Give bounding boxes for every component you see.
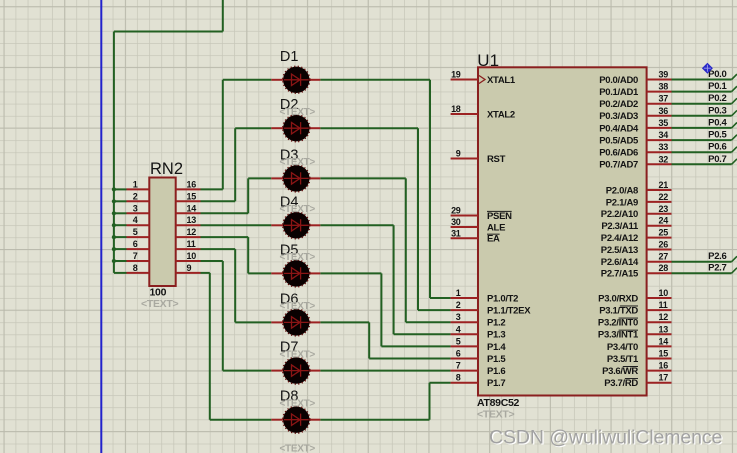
junction at RN2 pin 3 bus: [112, 211, 116, 215]
wire D8 to U1 P1.7: [320, 419, 429, 421]
svg-text:3: 3: [133, 203, 138, 213]
svg-text:2: 2: [133, 191, 138, 201]
origin marker diamond: [702, 63, 713, 74]
svg-text:100: 100: [150, 287, 167, 299]
svg-text:1: 1: [456, 288, 461, 298]
pin 9 U1 left: [451, 158, 478, 160]
pin 37 U1 right: [647, 103, 672, 105]
svg-text:P0.7/AD7: P0.7/AD7: [599, 160, 638, 171]
wire RN2 pin14 to D3: [201, 212, 249, 214]
svg-text:25: 25: [659, 228, 669, 238]
svg-text:27: 27: [659, 252, 669, 262]
svg-text:P0.3/AD3: P0.3/AD3: [599, 111, 638, 122]
svg-text:33: 33: [659, 142, 669, 152]
wire top vertical to image edge: [222, 0, 224, 32]
wire U1 P0.5 net: [672, 139, 732, 141]
wire D1 to U1 P1.0: [320, 79, 430, 81]
svg-text:P0.6/AD6: P0.6/AD6: [599, 148, 638, 159]
pin 36 U1 right: [647, 115, 672, 117]
svg-text:P2.7: P2.7: [708, 263, 726, 274]
svg-text:8: 8: [133, 263, 138, 273]
svg-text:<TEXT>: <TEXT>: [280, 204, 316, 215]
svg-text:2: 2: [456, 300, 461, 310]
svg-text:16: 16: [659, 361, 669, 371]
svg-text:34: 34: [659, 130, 669, 140]
wire D3 to U1 P1.2: [320, 177, 406, 179]
pin 1 U1 left: [451, 297, 478, 299]
pin 38 U1 right: [647, 91, 672, 93]
pin 5 RN2 left: [127, 236, 150, 238]
pin 16 RN2 right: [176, 188, 201, 190]
wire U1 P0.0 net: [672, 79, 732, 81]
svg-text:P1.6: P1.6: [487, 366, 505, 377]
pin 21 U1 right: [647, 189, 672, 191]
pin 23 U1 right: [647, 213, 672, 215]
svg-text:8: 8: [456, 373, 461, 383]
wire RN2 pin13 to D4: [201, 224, 272, 226]
wire U1 P0.7 net: [672, 163, 732, 165]
svg-text:39: 39: [659, 70, 669, 80]
svg-text:<TEXT>: <TEXT>: [280, 107, 316, 118]
LED D6: [271, 309, 320, 336]
pin 6 U1 left: [451, 358, 478, 360]
svg-text:9: 9: [187, 263, 192, 273]
svg-text:P0.2/AD2: P0.2/AD2: [599, 99, 638, 110]
wire RN2 pin11 to D6: [201, 248, 236, 250]
svg-text:P1.1/T2EX: P1.1/T2EX: [487, 306, 531, 317]
svg-text:38: 38: [659, 82, 669, 92]
svg-text:P3.5/T1: P3.5/T1: [607, 354, 639, 365]
svg-text:P2.0/A8: P2.0/A8: [606, 185, 638, 196]
svg-text:P1.7: P1.7: [487, 378, 505, 389]
wire RN2 pin10 to D7: [201, 260, 223, 262]
svg-text:P0.6: P0.6: [708, 142, 726, 153]
svg-text:7: 7: [456, 361, 461, 371]
net label tail P2.7: [732, 268, 737, 273]
svg-text:10: 10: [659, 288, 669, 298]
svg-text:32: 32: [659, 154, 669, 164]
wire U1 P0.3 net: [672, 115, 732, 117]
junction at RN2 pin 4 bus: [112, 223, 116, 227]
svg-text:26: 26: [659, 240, 669, 250]
svg-text:12: 12: [659, 312, 669, 322]
svg-text:17: 17: [659, 373, 669, 383]
pin 12 U1 right: [647, 321, 672, 323]
net label tail P0.3: [732, 110, 737, 115]
net label tail P2.6: [732, 256, 737, 261]
net label tail P0.1: [732, 86, 737, 91]
svg-text:P0.2: P0.2: [708, 93, 726, 104]
svg-text:12: 12: [187, 227, 197, 237]
svg-text:4: 4: [456, 324, 461, 334]
svg-text:36: 36: [659, 106, 669, 116]
svg-text:P0.0: P0.0: [708, 69, 726, 80]
clock input marker XTAL1: [479, 76, 485, 84]
svg-text:P3.4/T0: P3.4/T0: [607, 342, 638, 353]
wire RN2 pin9 to D8: [201, 272, 210, 274]
svg-text:9: 9: [456, 149, 461, 159]
svg-text:<TEXT>: <TEXT>: [280, 252, 316, 263]
pin 39 U1 right: [647, 79, 672, 81]
svg-text:P3.3/INT1: P3.3/INT1: [598, 330, 639, 341]
svg-text:D1: D1: [280, 49, 299, 65]
LED D5: [271, 260, 320, 287]
svg-text:<TEXT>: <TEXT>: [280, 444, 316, 453]
pin 30 U1 left: [451, 226, 478, 228]
svg-text:5: 5: [456, 336, 461, 346]
wire to RN2 pin 5: [114, 236, 127, 238]
svg-text:P1.3: P1.3: [487, 330, 505, 341]
svg-text:P2.2/A10: P2.2/A10: [601, 209, 638, 220]
svg-text:18: 18: [451, 104, 461, 114]
svg-text:5: 5: [133, 227, 138, 237]
net label tail P0.4: [732, 123, 737, 128]
svg-text:RST: RST: [487, 154, 506, 165]
pin 28 U1 right: [647, 272, 672, 274]
pin 7 RN2 left: [127, 260, 150, 262]
pin 10 RN2 right: [176, 260, 201, 262]
svg-text:7: 7: [133, 251, 138, 261]
svg-text:31: 31: [451, 228, 461, 238]
svg-text:<TEXT>: <TEXT>: [477, 409, 514, 421]
LED D3: [271, 165, 320, 192]
pin 26 U1 right: [647, 249, 672, 251]
wire U1 P0.1 net: [672, 91, 732, 93]
wire RN2 pin15 to D2: [201, 200, 236, 202]
svg-text:P0.7: P0.7: [708, 154, 726, 165]
resistor network RN2 body: [149, 178, 175, 287]
svg-text:P3.2/INT0: P3.2/INT0: [598, 318, 638, 329]
net label tail P0.6: [732, 147, 737, 152]
pin 13 U1 right: [647, 333, 672, 335]
junction at RN2 pin 6 bus: [112, 247, 116, 251]
pin 33 U1 right: [647, 151, 672, 153]
svg-text:P0.5: P0.5: [708, 130, 727, 141]
pin 15 RN2 right: [176, 200, 201, 202]
wire U1 P0.2 net: [672, 103, 732, 105]
pin 31 U1 left: [451, 237, 478, 239]
svg-text:15: 15: [659, 349, 669, 359]
net label tail P0.7: [732, 159, 737, 164]
svg-text:21: 21: [659, 180, 669, 190]
svg-text:19: 19: [451, 70, 461, 80]
net label tail P0.0: [732, 74, 737, 79]
svg-text:P2.1/A9: P2.1/A9: [606, 197, 638, 208]
wire U1 P0.4 net: [672, 127, 732, 129]
pin 12 RN2 right: [176, 236, 201, 238]
pin 24 U1 right: [647, 225, 672, 227]
svg-text:6: 6: [133, 239, 138, 249]
LED D2: [271, 115, 320, 142]
svg-text:P2.5/A13: P2.5/A13: [601, 245, 638, 256]
wire to RN2 pin 3: [114, 212, 127, 214]
svg-text:P1.4: P1.4: [487, 342, 506, 353]
svg-text:AT89C52: AT89C52: [477, 397, 520, 409]
svg-text:PSEN: PSEN: [487, 211, 512, 222]
svg-text:35: 35: [659, 118, 669, 128]
svg-text:XTAL2: XTAL2: [487, 109, 515, 120]
svg-text:P0.1/AD1: P0.1/AD1: [599, 87, 639, 98]
svg-text:3: 3: [456, 312, 461, 322]
svg-text:37: 37: [659, 94, 669, 104]
svg-text:<TEXT>: <TEXT>: [280, 398, 316, 409]
svg-text:15: 15: [187, 191, 197, 201]
pin 11 U1 right: [647, 309, 672, 311]
svg-text:11: 11: [187, 239, 196, 249]
net label tail P0.5: [732, 135, 737, 140]
svg-text:P2.3/A11: P2.3/A11: [601, 221, 639, 232]
svg-text:P0.0/AD0: P0.0/AD0: [599, 75, 638, 86]
pin 5 U1 left: [451, 345, 478, 347]
svg-text:P3.1/TXD: P3.1/TXD: [599, 306, 638, 317]
svg-text:<TEXT>: <TEXT>: [280, 157, 316, 168]
svg-text:13: 13: [187, 215, 197, 225]
LED D7: [271, 357, 320, 384]
svg-text:P0.1: P0.1: [708, 81, 727, 92]
junction at RN2 pin 1 bus: [112, 187, 116, 191]
wire U1 P2.7 net: [672, 272, 732, 274]
wire to RN2 pin 4: [114, 224, 127, 226]
svg-text:6: 6: [456, 349, 461, 359]
LED D8: [271, 406, 320, 433]
svg-text:13: 13: [659, 324, 669, 334]
pin 2 U1 left: [451, 309, 478, 311]
svg-text:11: 11: [659, 300, 668, 310]
junction at RN2 pin 7 bus: [112, 259, 116, 263]
pin 32 U1 right: [647, 163, 672, 165]
wire RN2 pin12 to D5: [201, 236, 249, 238]
wire RN2 pin16 to D1: [201, 188, 223, 190]
svg-text:30: 30: [451, 217, 461, 227]
pin 8 RN2 left: [127, 272, 150, 274]
pin 13 RN2 right: [176, 224, 201, 226]
wire D5 to U1 P1.4: [320, 272, 381, 274]
pin 4 RN2 left: [127, 224, 150, 226]
net label tail P0.2: [732, 98, 737, 103]
pin 35 U1 right: [647, 127, 672, 129]
pin 3 RN2 left: [127, 212, 150, 214]
svg-text:14: 14: [187, 203, 197, 213]
pin 15 U1 right: [647, 358, 672, 360]
wire to RN2 pin 2: [114, 200, 127, 202]
svg-text:XTAL1: XTAL1: [487, 75, 516, 86]
svg-text:P2.6: P2.6: [708, 251, 726, 262]
pin 7 U1 left: [451, 370, 478, 372]
pin 11 RN2 right: [176, 248, 201, 250]
wire D4 to U1 P1.3: [320, 224, 393, 226]
svg-text:P1.2: P1.2: [487, 318, 505, 329]
pin 6 RN2 left: [127, 248, 150, 250]
pin 9 RN2 right: [176, 272, 201, 274]
pin 22 U1 right: [647, 201, 672, 203]
wire top horizontal: [114, 31, 223, 33]
pin 27 U1 right: [647, 261, 672, 263]
svg-text:22: 22: [659, 192, 669, 202]
pin 18 U1 left: [451, 113, 478, 115]
pin 29 U1 left: [451, 215, 478, 217]
pin 8 U1 left: [451, 382, 478, 384]
svg-text:P2.7/A15: P2.7/A15: [601, 269, 639, 280]
svg-text:P1.5: P1.5: [487, 354, 506, 365]
svg-text:<TEXT>: <TEXT>: [280, 349, 316, 360]
pin 34 U1 right: [647, 139, 672, 141]
svg-text:16: 16: [187, 179, 197, 189]
wire to RN2 pin 6: [114, 248, 127, 250]
pin 14 U1 right: [647, 345, 672, 347]
pin 17 U1 right: [647, 382, 672, 384]
svg-text:P2.4/A12: P2.4/A12: [601, 233, 638, 244]
svg-text:<TEXT>: <TEXT>: [280, 301, 316, 312]
pin 4 U1 left: [451, 333, 478, 335]
pin 14 RN2 right: [176, 212, 201, 214]
pin 1 RN2 left: [127, 188, 150, 190]
svg-text:28: 28: [659, 263, 669, 273]
svg-text:CSDN @wuliwuliClemence: CSDN @wuliwuliClemence: [489, 426, 722, 448]
pin 2 RN2 left: [127, 200, 150, 202]
LED D1: [271, 66, 320, 93]
wire to RN2 pin 7: [114, 260, 127, 262]
pin 19 U1 left: [451, 79, 478, 81]
op U1 AT89C52 body: [478, 67, 647, 395]
svg-text:24: 24: [659, 216, 669, 226]
svg-text:P3.7/RD: P3.7/RD: [604, 378, 638, 389]
pin 10 U1 right: [647, 297, 672, 299]
junction at RN2 pin 5 bus: [112, 235, 116, 239]
svg-text:29: 29: [451, 206, 461, 216]
svg-text:1: 1: [133, 179, 138, 189]
wire D6 to U1 P1.5: [320, 321, 369, 323]
svg-text:P3.6/WR: P3.6/WR: [602, 366, 638, 377]
wire RN2 common bus vertical: [113, 32, 115, 273]
svg-text:23: 23: [659, 204, 669, 214]
svg-text:P0.5/AD5: P0.5/AD5: [599, 136, 639, 147]
wire U1 P0.6 net: [672, 151, 732, 153]
wire to RN2 pin 8: [114, 272, 127, 274]
svg-text:<TEXT>: <TEXT>: [141, 298, 178, 310]
wire U1 P2.6 net: [672, 261, 732, 263]
pin 3 U1 left: [451, 321, 478, 323]
pin 16 U1 right: [647, 370, 672, 372]
wire D2 to U1 P1.1: [320, 127, 418, 129]
svg-text:P0.4: P0.4: [708, 117, 727, 128]
svg-text:RN2: RN2: [150, 160, 183, 178]
LED D4: [271, 212, 320, 239]
svg-text:P0.4/AD4: P0.4/AD4: [599, 123, 639, 134]
svg-text:P1.0/T2: P1.0/T2: [487, 293, 518, 304]
svg-text:14: 14: [659, 336, 669, 346]
junction at RN2 pin 2 bus: [112, 199, 116, 203]
svg-text:4: 4: [133, 215, 138, 225]
pin 25 U1 right: [647, 237, 672, 239]
svg-text:10: 10: [187, 251, 197, 261]
svg-text:EA: EA: [487, 234, 500, 245]
svg-text:ALE: ALE: [487, 222, 505, 233]
wire D7 to U1 P1.6: [320, 370, 450, 372]
svg-text:U1: U1: [477, 51, 499, 70]
sheet border blue line: [100, 0, 102, 453]
svg-text:P0.3: P0.3: [708, 105, 726, 116]
svg-text:P3.0/RXD: P3.0/RXD: [598, 293, 638, 304]
svg-text:P2.6/A14: P2.6/A14: [601, 257, 639, 268]
wire to RN2 pin 1: [114, 188, 127, 190]
